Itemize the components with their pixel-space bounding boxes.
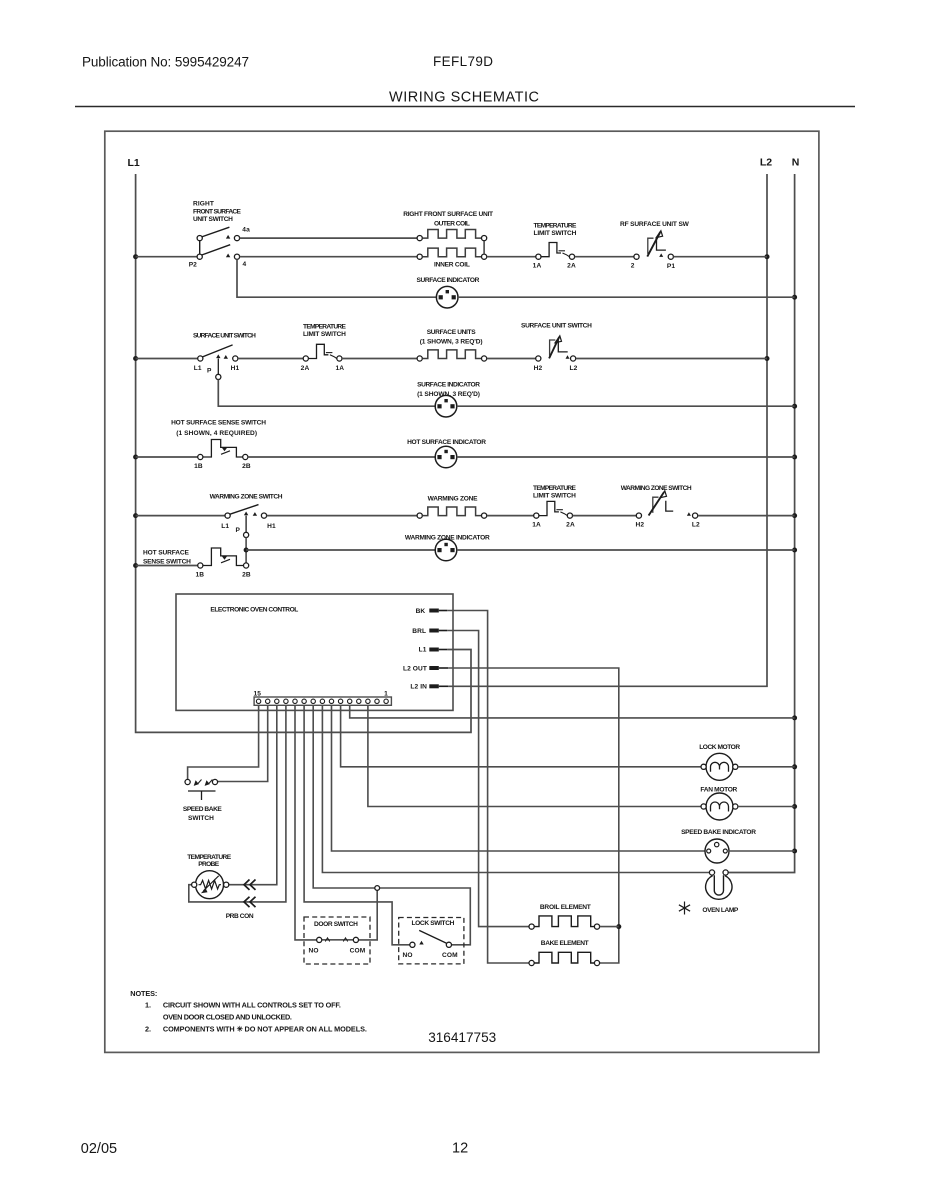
resistor bake element xyxy=(529,952,600,965)
svg-text:BRL: BRL xyxy=(412,628,426,635)
wire BK to bake element xyxy=(447,611,529,964)
switch S9 speed bake switch xyxy=(185,779,218,800)
svg-text:TEMPERATURE: TEMPERATURE xyxy=(534,222,578,229)
pin label 4 xyxy=(243,261,247,268)
svg-text:(1 SHOWN, 4 REQUIRED): (1 SHOWN, 4 REQUIRED) xyxy=(176,430,257,437)
pin label L2 OUT xyxy=(403,665,427,672)
lamp warming zone indicator xyxy=(435,539,457,561)
svg-text:2: 2 xyxy=(631,262,635,269)
pin label L1 xyxy=(419,647,427,654)
label speed bake switch xyxy=(183,806,223,822)
svg-text:2A: 2A xyxy=(566,521,575,528)
svg-text:L2: L2 xyxy=(570,365,578,372)
pin label H1 row2 xyxy=(231,365,240,372)
symbol asterisk oven lamp xyxy=(679,902,690,915)
svg-text:1B: 1B xyxy=(194,463,203,470)
svg-text:SWITCH: SWITCH xyxy=(188,815,214,822)
svg-text:SURFACE UNIT SWITCH: SURFACE UNIT SWITCH xyxy=(521,323,592,330)
pin label L2 IN xyxy=(410,684,427,691)
pin label COM door xyxy=(350,947,366,954)
pin label BRL xyxy=(412,628,426,635)
switch S6 warming zone switch left xyxy=(225,505,267,538)
svg-text:NOTES:: NOTES: xyxy=(130,989,157,998)
label surface unit switch row2 right xyxy=(521,323,592,330)
svg-text:(1 SHOWN, 3 REQ'D): (1 SHOWN, 3 REQ'D) xyxy=(420,338,483,345)
label speed bake indicator xyxy=(681,829,756,836)
lamp hot surface indicator xyxy=(435,446,457,468)
pin label H1 row4 xyxy=(267,523,276,530)
svg-text:2A: 2A xyxy=(301,365,310,372)
svg-text:PRB CON: PRB CON xyxy=(226,913,254,920)
wire P drop to surface indicator row2 xyxy=(218,380,435,407)
pin label L1 row4 xyxy=(221,523,229,530)
wire L1 bus to 1B row5 xyxy=(136,565,198,567)
junction dots on L2 bus xyxy=(765,254,770,361)
svg-text:LIMIT SWITCH: LIMIT SWITCH xyxy=(303,331,346,338)
switch S8 hot surface sense switch row5 xyxy=(198,548,249,568)
svg-text:HOT SURFACE INDICATOR: HOT SURFACE INDICATOR xyxy=(407,439,486,446)
wire L2 OUT to elements xyxy=(448,668,619,963)
label surface units xyxy=(420,329,483,346)
pin label NO lock xyxy=(402,952,412,959)
junction door COM on pin9 wire xyxy=(375,886,380,891)
pin label 2A row1 xyxy=(567,262,576,269)
svg-text:H2: H2 xyxy=(635,521,644,528)
pin label P row2 xyxy=(207,367,212,374)
svg-text:P: P xyxy=(235,527,240,534)
lamp speed bake indicator xyxy=(705,839,729,863)
thermostat TL2 temperature limit switch row2 xyxy=(303,344,342,361)
wire L2 terminal to L2 bus xyxy=(576,358,767,360)
wire surface indicator to N bus xyxy=(458,296,795,298)
svg-text:OUTER COIL: OUTER COIL xyxy=(434,220,470,227)
node N label xyxy=(792,157,800,169)
wire pin5 to N bus xyxy=(350,705,795,718)
svg-text:L1: L1 xyxy=(127,157,139,169)
svg-text:LIMIT SWITCH: LIMIT SWITCH xyxy=(534,230,577,237)
label hot surface indicator xyxy=(407,439,486,446)
svg-text:BAKE ELEMENT: BAKE ELEMENT xyxy=(541,940,589,947)
switch S11 lock switch box xyxy=(399,918,464,964)
pin label NO door xyxy=(308,947,318,954)
switch S11 lock switch contacts xyxy=(410,930,452,947)
resistor surface units coil xyxy=(417,350,487,361)
wire pin15 to speed bake switch left xyxy=(188,705,259,779)
svg-text:LOCK SWITCH: LOCK SWITCH xyxy=(412,920,455,927)
pin label 2A row2 xyxy=(301,365,310,372)
svg-text:LIMIT SWITCH: LIMIT SWITCH xyxy=(533,492,576,499)
svg-text:UNIT SWITCH: UNIT SWITCH xyxy=(193,216,233,223)
svg-text:316417753: 316417753 xyxy=(428,1030,496,1045)
wire surface units to H2 xyxy=(487,358,536,360)
label surface indicator row1 xyxy=(417,277,480,284)
label bake element xyxy=(541,940,589,947)
switch S1 right front surface unit switch label xyxy=(193,201,242,224)
svg-text:SENSE SWITCH: SENSE SWITCH xyxy=(143,558,191,565)
svg-text:DOOR SWITCH: DOOR SWITCH xyxy=(314,921,358,928)
svg-text:SPEED BAKE: SPEED BAKE xyxy=(183,806,223,813)
svg-text:1A: 1A xyxy=(533,262,542,269)
wire outer coil to inner coil xyxy=(483,241,485,254)
pin label 4a xyxy=(242,227,250,234)
pin label P2 xyxy=(189,262,197,269)
svg-text:OVEN LAMP: OVEN LAMP xyxy=(702,907,739,914)
label temperature limit switch row1 xyxy=(534,222,578,237)
pin label H2 row4 xyxy=(635,521,644,528)
wire warming zone indicator to N bus xyxy=(457,549,795,551)
pin label H2 row2 xyxy=(534,365,543,372)
wire pin6 to lock motor xyxy=(341,705,701,767)
wire L2 bus down to EOC L2 IN terminal xyxy=(448,174,767,686)
label warming zone xyxy=(428,495,479,502)
pin label 1A row1 xyxy=(533,262,542,269)
svg-text:BROIL ELEMENT: BROIL ELEMENT xyxy=(540,904,591,911)
wire L1 bus to row4 switch xyxy=(136,515,225,517)
resistor broil element xyxy=(529,916,600,929)
pin label BK xyxy=(416,608,426,615)
junction dot P drop and warming zone indicator xyxy=(244,548,249,553)
svg-text:P: P xyxy=(207,367,212,374)
label temperature probe xyxy=(187,854,232,868)
wire warming zone indicator line xyxy=(246,549,435,551)
switch S4 surface unit switch right xyxy=(536,336,576,361)
label PRB CON xyxy=(226,913,254,920)
connector PRB CON upper chevron xyxy=(244,880,256,890)
FOOTER xyxy=(81,1141,468,1158)
svg-text:FAN MOTOR: FAN MOTOR xyxy=(700,786,737,793)
label broil element xyxy=(540,904,591,911)
svg-text:TEMPERATURE: TEMPERATURE xyxy=(187,854,232,861)
svg-text:L2 IN: L2 IN xyxy=(410,684,427,691)
svg-text:SPEED BAKE INDICATOR: SPEED BAKE INDICATOR xyxy=(681,829,756,836)
switch S1 right front surface unit switch xyxy=(197,227,240,259)
pin label COM lock xyxy=(442,952,458,959)
svg-text:INNER COIL: INNER COIL xyxy=(434,262,470,269)
svg-text:RIGHT FRONT SURFACE UNIT: RIGHT FRONT SURFACE UNIT xyxy=(403,211,493,218)
lamp surface indicator row2 xyxy=(435,395,457,417)
label surface unit switch row2 left xyxy=(193,333,256,340)
wire L1 bus to P2 xyxy=(136,256,198,258)
label right front surface unit xyxy=(403,211,493,228)
svg-text:RF SURFACE UNIT SW: RF SURFACE UNIT SW xyxy=(620,221,690,228)
svg-text:SURFACE UNITS: SURFACE UNITS xyxy=(427,329,477,336)
svg-text:BK: BK xyxy=(416,608,426,615)
pin label L1 row2 xyxy=(194,365,202,372)
junction dot L2 OUT and broil element xyxy=(616,924,621,929)
wire 2A to RF switch xyxy=(575,256,634,258)
svg-text:L1: L1 xyxy=(419,647,427,654)
wire fan motor to N bus xyxy=(738,806,795,808)
pin label 1A row2 xyxy=(335,365,344,372)
resistor inner coil xyxy=(417,248,487,259)
svg-text:02/05: 02/05 xyxy=(81,1141,117,1157)
svg-text:12: 12 xyxy=(452,1141,468,1157)
resistor warming zone coil xyxy=(417,507,487,518)
pin label 2B row5 xyxy=(242,572,251,579)
wire pin12 to probe connector lower xyxy=(189,705,286,902)
label inner coil xyxy=(434,262,470,269)
svg-text:NO: NO xyxy=(308,947,318,954)
svg-text:SURFACE INDICATOR: SURFACE INDICATOR xyxy=(417,277,480,284)
connector strip P1 on EOC xyxy=(254,697,391,705)
pin label 2A row4 xyxy=(566,521,575,528)
wire 4 drop to surface indicator row xyxy=(237,259,436,297)
wire speed bake indicator to N bus xyxy=(729,850,795,852)
wire 4 to inner coil xyxy=(240,256,418,258)
thermostat TL3 temperature limit switch row4 xyxy=(534,501,573,518)
outer border frame xyxy=(105,131,819,1052)
label hot surface sense switch row5 xyxy=(143,550,191,566)
svg-text:WARMING ZONE SWITCH: WARMING ZONE SWITCH xyxy=(621,485,692,492)
svg-text:1B: 1B xyxy=(195,572,204,579)
node L2 label xyxy=(760,157,772,169)
terminal BK spade xyxy=(429,609,447,613)
HEADER xyxy=(75,54,855,107)
svg-text:COMPONENTS WITH ✳ DO NOT APPEA: COMPONENTS WITH ✳ DO NOT APPEAR ON ALL M… xyxy=(163,1024,367,1033)
terminal L2 IN spade xyxy=(429,684,448,688)
wire lock motor to N bus xyxy=(738,766,795,768)
svg-text:SURFACE INDICATOR: SURFACE INDICATOR xyxy=(417,382,480,389)
switch S5 hot surface sense switch row3 xyxy=(198,440,248,460)
svg-text:WARMING ZONE SWITCH: WARMING ZONE SWITCH xyxy=(210,494,283,501)
svg-text:N: N xyxy=(792,157,800,169)
switch S2 RF surface unit sw xyxy=(634,231,674,260)
label temperature limit switch row2 xyxy=(303,323,347,338)
wire pin3 to fan motor xyxy=(368,705,701,806)
pin label 1A row4 xyxy=(532,521,541,528)
svg-text:4: 4 xyxy=(243,261,247,268)
svg-text:1A: 1A xyxy=(335,365,344,372)
pin label 1B row5 xyxy=(195,572,204,579)
svg-text:WARMING ZONE: WARMING ZONE xyxy=(428,495,479,502)
pin label L2 row2 xyxy=(570,365,578,372)
svg-text:HOT SURFACE: HOT SURFACE xyxy=(143,550,190,557)
svg-text:NO: NO xyxy=(402,952,412,959)
resistor RT1 temperature probe xyxy=(192,871,229,899)
part number 316417753 xyxy=(428,1030,496,1045)
svg-text:FEFL79D: FEFL79D xyxy=(433,54,493,69)
pin label P1 xyxy=(667,263,675,270)
label door switch xyxy=(314,921,358,928)
label surface indicator row2 xyxy=(417,382,480,399)
svg-text:RIGHT: RIGHT xyxy=(193,201,214,208)
pin label 2B row3 xyxy=(242,463,251,470)
wire pin7 to speed bake indicator xyxy=(332,705,706,851)
svg-text:2.: 2. xyxy=(145,1024,151,1033)
label warming zone indicator xyxy=(405,535,490,542)
svg-text:1A: 1A xyxy=(532,521,541,528)
resistor outer coil xyxy=(417,230,487,241)
wire hot surface indicator to N bus xyxy=(457,456,795,458)
thermostat TL1 temperature limit switch xyxy=(536,243,575,260)
wire N bus down to oven lamp xyxy=(728,174,794,873)
op-amp U1 electronic oven control box xyxy=(176,594,453,710)
svg-text:SURFACE UNIT SWITCH: SURFACE UNIT SWITCH xyxy=(193,333,256,340)
svg-text:2A: 2A xyxy=(567,262,576,269)
label fan motor xyxy=(700,786,737,793)
svg-text:COM: COM xyxy=(350,947,366,954)
svg-text:ELECTRONIC OVEN CONTROL: ELECTRONIC OVEN CONTROL xyxy=(210,606,298,613)
pin label L2 row4 xyxy=(692,521,700,528)
svg-text:2B: 2B xyxy=(242,572,251,579)
svg-text:TEMPERATURE: TEMPERATURE xyxy=(533,485,577,492)
svg-text:L2: L2 xyxy=(760,157,772,169)
wire L2 terminal row4 to N bus xyxy=(698,515,795,517)
switch S7 warming zone switch right xyxy=(636,491,697,518)
svg-text:HOT SURFACE SENSE SWITCH: HOT SURFACE SENSE SWITCH xyxy=(171,420,266,427)
pin label 2 xyxy=(631,262,635,269)
wire 2B to hot surface indicator xyxy=(248,456,435,458)
wire pin9 to door and lock switch COM xyxy=(313,705,470,945)
label warming zone switch row4 right xyxy=(621,485,692,492)
label electronic oven control xyxy=(210,606,298,613)
terminal BRL spade xyxy=(429,629,447,633)
wire L1 bus to 1B row3 xyxy=(136,456,198,458)
svg-text:15: 15 xyxy=(254,691,262,698)
wire broil element to L2 OUT xyxy=(600,926,619,928)
label warming zone switch row4 left xyxy=(210,494,283,501)
svg-text:P1: P1 xyxy=(667,263,675,270)
lamp surface indicator row1 xyxy=(436,286,458,308)
svg-text:TEMPERATURE: TEMPERATURE xyxy=(303,323,347,330)
svg-text:1: 1 xyxy=(384,691,388,698)
wire surface indicator row2 to N bus xyxy=(457,405,795,407)
svg-text:CIRCUIT SHOWN WITH ALL CONTROL: CIRCUIT SHOWN WITH ALL CONTROLS SET TO O… xyxy=(163,1000,341,1009)
label lock switch xyxy=(412,920,455,927)
junction dots on N bus xyxy=(792,295,797,854)
pin label 15 xyxy=(254,691,262,698)
wire pin13 to probe connector upper xyxy=(229,705,277,884)
NOTES text block xyxy=(130,989,367,1034)
switch S10 door switch box xyxy=(304,917,370,964)
wire inner coil to 1A xyxy=(487,256,536,258)
svg-text:OVEN DOOR CLOSED AND UNLOCKED.: OVEN DOOR CLOSED AND UNLOCKED. xyxy=(163,1012,292,1021)
wire pin8 to oven lamp xyxy=(322,705,709,872)
label oven lamp xyxy=(702,907,739,914)
wire 4a to outer coil xyxy=(240,237,418,239)
wire pin14 to speed bake switch right xyxy=(218,705,268,781)
svg-text:H1: H1 xyxy=(231,365,240,372)
svg-text:1.: 1. xyxy=(145,1000,151,1009)
svg-text:L1: L1 xyxy=(221,523,229,530)
switch S10 door switch contacts xyxy=(317,937,359,942)
wire warming zone coil to 1A row4 xyxy=(487,515,534,517)
svg-text:L1: L1 xyxy=(194,365,202,372)
label RF surface unit sw xyxy=(620,221,690,228)
wire P1 to L2 bus xyxy=(673,256,767,258)
svg-text:H2: H2 xyxy=(534,365,543,372)
motor M1 lock motor xyxy=(701,753,738,780)
wire P drop row4 to 2B row5 xyxy=(245,538,247,563)
svg-text:2B: 2B xyxy=(242,463,251,470)
terminal L2 OUT spade xyxy=(429,666,448,670)
pin label 1B row3 xyxy=(194,463,203,470)
lamp oven lamp xyxy=(706,870,732,899)
wire L1 bus down to EOC L1 terminal xyxy=(136,174,471,732)
terminal L1 spade xyxy=(429,648,447,652)
svg-text:L2 OUT: L2 OUT xyxy=(403,665,427,672)
wire pin11 to door switch NO xyxy=(295,705,317,940)
wire 2A to H2 row4 xyxy=(573,515,637,517)
svg-text:H1: H1 xyxy=(267,523,276,530)
node L1 label xyxy=(127,157,139,169)
pin label P row4 xyxy=(235,527,240,534)
svg-text:LOCK MOTOR: LOCK MOTOR xyxy=(699,744,740,751)
svg-text:COM: COM xyxy=(442,952,458,959)
junction dots on L1 bus xyxy=(133,254,138,568)
pin label 1 xyxy=(384,691,388,698)
wire L1 bus to row2 switch xyxy=(136,358,198,360)
motor M2 fan motor xyxy=(701,793,738,820)
wire H1 to warming zone coil xyxy=(267,515,418,517)
wire H1 to 2A row2 xyxy=(238,358,303,360)
switch S3 surface unit switch left xyxy=(198,345,238,380)
svg-text:P2: P2 xyxy=(189,262,197,269)
connector PRB CON lower chevron xyxy=(244,897,256,907)
svg-text:PROBE: PROBE xyxy=(198,861,220,868)
wire 1A to surface units coil xyxy=(342,358,417,360)
svg-text:Publication No: 5995429247: Publication No: 5995429247 xyxy=(82,55,249,70)
svg-text:L2: L2 xyxy=(692,521,700,528)
wire pin10 to lock switch NO xyxy=(304,705,410,945)
svg-text:WIRING SCHEMATIC: WIRING SCHEMATIC xyxy=(389,90,539,106)
label temperature limit switch row4 xyxy=(533,485,577,500)
wire BRL to broil element xyxy=(447,631,529,927)
wire door switch COM to junction xyxy=(359,890,378,940)
label lock motor xyxy=(699,744,740,751)
svg-text:FRONT SURFACE: FRONT SURFACE xyxy=(193,208,242,215)
label hot surface sense switch row3 xyxy=(171,420,266,437)
svg-text:4a: 4a xyxy=(242,227,250,234)
